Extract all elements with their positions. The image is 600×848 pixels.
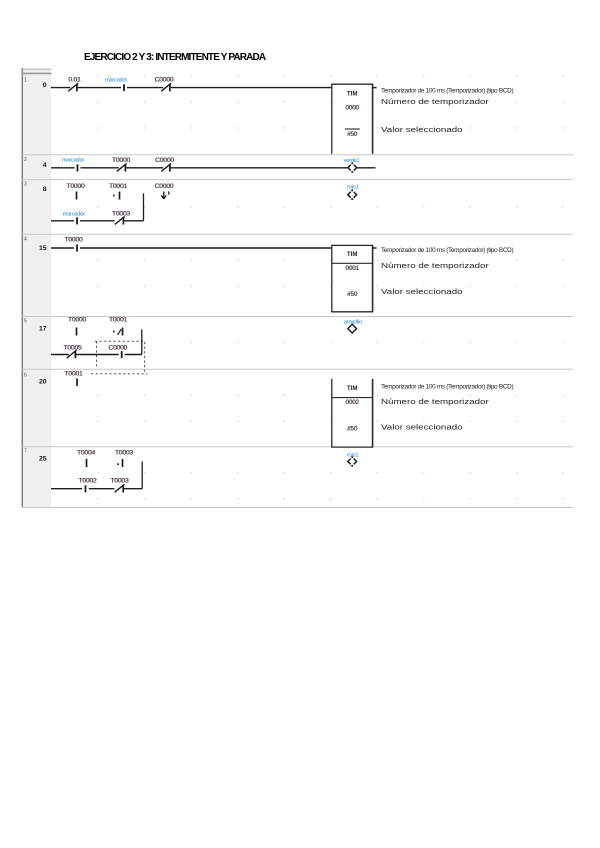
rung7 row2 wire segments <box>51 488 82 490</box>
svg-text:verde1: verde1 <box>344 158 360 164</box>
svg-text:4: 4 <box>24 237 27 243</box>
svg-text:Temporizador de 100 ms (Tempor: Temporizador de 100 ms (Temporizador) (t… <box>381 384 513 391</box>
svg-text:#50: #50 <box>347 131 358 138</box>
branch vertical wire <box>143 193 145 221</box>
contact T0004 (unwired pole) <box>86 459 88 467</box>
contact T0000 (unwired pole) <box>76 328 78 336</box>
svg-text:T0003: T0003 <box>115 450 133 457</box>
svg-text:#50: #50 <box>347 425 358 432</box>
svg-text:0.01: 0.01 <box>68 77 81 84</box>
contact T0003 (unwired) <box>117 463 119 465</box>
svg-text:T0003: T0003 <box>110 477 128 484</box>
contact T0003 (NC) <box>122 217 124 225</box>
grid dots (decorative) <box>98 75 564 499</box>
contact C0000 (NC) <box>169 84 171 92</box>
svg-text:T0000: T0000 <box>64 237 82 244</box>
svg-text:1: 1 <box>24 78 27 84</box>
margin top divider <box>22 72 51 74</box>
svg-text:4: 4 <box>43 162 47 169</box>
svg-text:T0004: T0004 <box>77 450 95 457</box>
svg-text:C0000: C0000 <box>155 157 174 164</box>
contact C0000 falling-edge (unwired) <box>161 192 166 199</box>
svg-text:0001: 0001 <box>345 265 359 272</box>
TIM block rung1 (TIM 0000 #50) <box>332 84 373 154</box>
svg-text:7: 7 <box>24 449 27 455</box>
coil rojo1 (unwired) <box>348 459 351 465</box>
svg-text:17: 17 <box>39 326 47 333</box>
svg-text:marcador: marcador <box>62 158 84 164</box>
svg-text:Valor seleccionado: Valor seleccionado <box>381 125 463 134</box>
svg-text:EJERCICIO 2 Y 3: INTERMITENTE: EJERCICIO 2 Y 3: INTERMITENTE Y PARADA <box>84 52 266 63</box>
selection rectangle (dashed) <box>91 341 148 374</box>
svg-text:T0001: T0001 <box>109 183 127 190</box>
contact marcador (NO) <box>76 217 78 224</box>
svg-text:rojo1: rojo1 <box>347 453 358 459</box>
contact C0000 (NC) <box>169 164 171 172</box>
svg-text:3: 3 <box>24 182 27 188</box>
rung header margin column <box>23 68 52 508</box>
TIM output stub <box>373 247 377 249</box>
svg-text:20: 20 <box>39 378 47 385</box>
rung1 wire segments <box>51 87 70 89</box>
svg-text:5: 5 <box>24 319 27 325</box>
svg-text:25: 25 <box>39 456 47 463</box>
rung divider <box>22 233 573 235</box>
TIM output stub <box>373 87 377 89</box>
svg-text:amarillo: amarillo <box>344 319 362 325</box>
contact T0003 (NC) <box>122 485 124 493</box>
svg-text:0: 0 <box>43 82 47 89</box>
TIM block rung4 (TIM 0001 #50) <box>332 245 373 311</box>
rung2 wire segments <box>51 167 75 169</box>
rung divider <box>22 179 573 181</box>
svg-text:2: 2 <box>24 157 27 163</box>
contact T0005 (NC) <box>74 351 76 359</box>
svg-text:Número de temporizador: Número de temporizador <box>381 397 489 406</box>
svg-text:TIM: TIM <box>347 251 358 258</box>
coil amarillo (unwired) <box>348 324 357 333</box>
rung5 row2 wire segments <box>51 354 69 356</box>
svg-text:#50: #50 <box>347 291 358 298</box>
contact marcador (NO) <box>123 84 125 91</box>
svg-text:TIM: TIM <box>347 385 358 392</box>
svg-text:rojo1: rojo1 <box>347 185 358 191</box>
branch vertical wire <box>141 462 143 489</box>
rung divider <box>22 154 573 156</box>
svg-text:T0000: T0000 <box>66 183 84 190</box>
margin header top line <box>22 68 51 70</box>
svg-text:Número de temporizador: Número de temporizador <box>381 261 489 270</box>
contact T0001 (unwired pole) <box>76 379 78 387</box>
contact T0000 (NO) <box>76 245 78 252</box>
svg-text:Número de temporizador: Número de temporizador <box>381 97 489 106</box>
svg-text:marcador: marcador <box>63 211 85 217</box>
contact T0000 (NC) <box>124 164 126 172</box>
svg-text:TIM: TIM <box>347 90 358 97</box>
svg-text:T0003: T0003 <box>112 211 130 218</box>
rung divider <box>22 368 573 370</box>
rung4 wire segments <box>51 247 74 249</box>
svg-text:T0000: T0000 <box>68 317 86 324</box>
rung3 row2 wire segments <box>51 220 74 222</box>
rung divider <box>22 316 573 318</box>
svg-text:T0001: T0001 <box>109 317 127 324</box>
svg-text:T0001: T0001 <box>64 371 82 378</box>
svg-text:T0005: T0005 <box>63 344 81 351</box>
svg-text:Temporizador de 100 ms (Tempor: Temporizador de 100 ms (Temporizador) (t… <box>381 247 513 254</box>
rung divider <box>22 446 573 448</box>
contact C0000 (NO) <box>121 351 123 358</box>
coil rojo1 (unwired) <box>348 192 351 198</box>
svg-text:0002: 0002 <box>345 399 359 406</box>
margin left border <box>21 68 23 508</box>
contact marcador (NO) <box>77 164 79 171</box>
svg-text:T0000: T0000 <box>112 157 130 164</box>
svg-text:C0000: C0000 <box>155 77 174 84</box>
svg-text:C0000: C0000 <box>155 183 174 190</box>
svg-text:Temporizador de 100 ms (Tempor: Temporizador de 100 ms (Temporizador) (t… <box>381 88 513 95</box>
svg-text:T0002: T0002 <box>78 477 96 484</box>
contact T0002 (NO) <box>85 485 87 492</box>
svg-text:C0000: C0000 <box>108 344 127 351</box>
svg-text:15: 15 <box>39 245 47 252</box>
TIM block rung6 (TIM 0002 #50) <box>332 379 373 447</box>
contact 0.01 (NC) <box>76 84 78 92</box>
contact T0001 (unwired) <box>113 195 115 197</box>
svg-text:Valor seleccionado: Valor seleccionado <box>381 423 463 432</box>
svg-text:6: 6 <box>24 373 27 379</box>
coil verde1 <box>348 165 351 171</box>
contact T0001 (unwired) <box>113 331 115 333</box>
branch vertical wire <box>141 330 143 355</box>
svg-text:8: 8 <box>43 186 47 193</box>
svg-text:Valor seleccionado: Valor seleccionado <box>381 287 463 296</box>
svg-text:marcador: marcador <box>105 77 127 83</box>
rung divider <box>22 507 573 509</box>
contact T0000 (unwired pole) <box>76 192 78 200</box>
svg-text:0000: 0000 <box>345 104 359 111</box>
